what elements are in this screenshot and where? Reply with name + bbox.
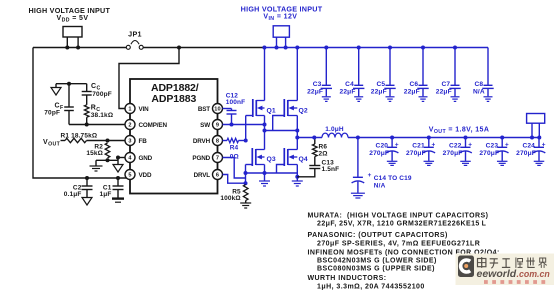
svg-text:22μF: 22μF xyxy=(340,88,356,95)
svg-text:C22: C22 xyxy=(449,143,462,150)
net label VOUT (feedback) xyxy=(43,139,61,147)
svg-text:270μF: 270μF xyxy=(516,150,536,157)
svg-text:VIN: VIN xyxy=(139,106,150,113)
ground (hatched, R2) xyxy=(90,166,103,171)
pin 6 DRVL xyxy=(194,170,223,180)
svg-text:COMP/EN: COMP/EN xyxy=(139,122,168,129)
wire Q3 gate vertical xyxy=(246,165,253,184)
pin 10 BST xyxy=(198,104,223,114)
svg-text:C3: C3 xyxy=(313,81,322,88)
svg-text:270μF: 270μF xyxy=(369,150,389,157)
wire pin 4 to AGND xyxy=(118,158,125,165)
svg-text:N/A: N/A xyxy=(374,183,386,190)
svg-text:9: 9 xyxy=(216,123,219,129)
svg-text:MURATA: (HIGH VOLTAGE INPUT C: MURATA: (HIGH VOLTAGE INPUT CAPACITORS) xyxy=(308,212,489,219)
svg-text:Q4: Q4 xyxy=(299,156,308,163)
capacitor CC 700pF xyxy=(82,83,112,98)
ground (Q3 source) xyxy=(259,181,270,186)
svg-text:270μF: 270μF xyxy=(443,150,463,157)
wire left VDD rail to pin 5 xyxy=(33,48,127,179)
svg-text:C20: C20 xyxy=(376,143,389,150)
capacitor C4 22uF xyxy=(340,48,365,102)
svg-text:1.0μH: 1.0μH xyxy=(325,126,344,133)
svg-text:C14 TO C19: C14 TO C19 xyxy=(374,175,412,182)
svg-text:+: + xyxy=(505,141,509,148)
pin 3 FB xyxy=(125,136,147,146)
svg-text:700pF: 700pF xyxy=(92,91,112,98)
svg-text:BST: BST xyxy=(198,106,210,113)
svg-text:8: 8 xyxy=(216,139,219,145)
svg-text:5: 5 xyxy=(128,173,131,179)
wire DRVL pin 6 feed xyxy=(223,175,246,184)
connector J-VOUT (output header) xyxy=(527,114,545,138)
ground (Q4 source) xyxy=(292,181,303,186)
ground (C1) xyxy=(112,199,124,203)
svg-text:1μH, 3.3mΩ, 20A 7443552100: 1μH, 3.3mΩ, 20A 7443552100 xyxy=(317,283,425,290)
svg-text:1.5nF: 1.5nF xyxy=(322,166,340,173)
capacitor C22 270uF xyxy=(443,138,473,166)
capacitor C23 270uF xyxy=(479,138,509,166)
svg-text:22μF, 25V, X7R, 1210 GRM32ER71: 22μF, 25V, X7R, 1210 GRM32ER71E226KE15 L xyxy=(317,221,487,228)
junction dot Q3 source xyxy=(263,171,267,175)
wire JP1 to VIN junction xyxy=(143,47,264,49)
wire Q3 source to ground xyxy=(264,165,266,181)
svg-text:Q3: Q3 xyxy=(267,156,276,163)
wire VDD drop to pin 1 VIN xyxy=(119,48,179,109)
resistor R6 2ohm (snubber) xyxy=(313,138,328,166)
svg-text:C8: C8 xyxy=(474,81,483,88)
transistor Q3 (lower MOSFET) xyxy=(252,148,276,166)
wire 12V blue rail xyxy=(264,47,488,49)
svg-text:15kΩ: 15kΩ xyxy=(86,150,103,157)
wire Q1 drain to 12V rail xyxy=(264,48,266,101)
resistor R2 15k xyxy=(86,143,109,158)
junction dot R6 top xyxy=(312,136,316,140)
svg-text:+: + xyxy=(542,141,546,148)
capacitor C6 22uF xyxy=(404,48,429,102)
pin 4 GND xyxy=(125,153,153,163)
svg-text:2: 2 xyxy=(128,123,131,129)
svg-text:+: + xyxy=(468,141,472,148)
capacitor C8 N/A xyxy=(473,48,494,102)
svg-text:.com.cn: .com.cn xyxy=(517,269,550,279)
wire SW cross tie xyxy=(265,130,298,132)
capacitor C2 0.1uF xyxy=(64,178,93,198)
svg-text:Q2: Q2 xyxy=(299,107,308,114)
ground triangle (AGND pin 4) xyxy=(113,165,123,173)
capacitor C13 1.5nF (snubber) xyxy=(297,160,339,177)
svg-text:DRVH: DRVH xyxy=(193,138,211,145)
svg-text:C4: C4 xyxy=(345,81,354,88)
junction dots on VDD bottom rail xyxy=(85,176,120,180)
ground (R5) xyxy=(240,203,251,208)
svg-text:270μF SP-SERIES, 4V, 7mΩ EEFUE: 270μF SP-SERIES, 4V, 7mΩ EEFUE0G271LR xyxy=(317,240,480,247)
transistor Q2 (upper MOSFET, NC) xyxy=(284,99,308,117)
svg-text:BSC042N03MS G (LOWER SIDE): BSC042N03MS G (LOWER SIDE) xyxy=(317,258,437,265)
junction dots Q2 source node xyxy=(295,129,299,140)
svg-text:HIGH VOLTAGE INPUT: HIGH VOLTAGE INPUT xyxy=(28,6,110,15)
capacitor C21 270uF xyxy=(406,138,436,166)
wire Q2 gate tie to SW xyxy=(273,116,285,131)
svg-text:Q1: Q1 xyxy=(267,107,276,114)
capacitor C20 270uF xyxy=(369,138,399,166)
node triangle (comp net top) xyxy=(51,84,61,95)
junction dots SW node xyxy=(230,123,267,127)
junction dot comp bottom xyxy=(85,123,89,127)
junction dot R4/Q1 gate xyxy=(244,139,248,143)
capacitor C12 100nF xyxy=(223,92,246,124)
junction dot R1/R2 node xyxy=(106,139,110,143)
svg-text:WURTH INDUCTORS:: WURTH INDUCTORS: xyxy=(308,275,387,282)
capacitor C5 22uF xyxy=(371,48,396,102)
svg-text:PANASONIC: (OUTPUT CAPACITORS): PANASONIC: (OUTPUT CAPACITORS) xyxy=(308,232,448,239)
svg-text:0.1μF: 0.1μF xyxy=(64,191,82,198)
svg-text:2Ω: 2Ω xyxy=(319,150,328,157)
resistor R1 18.75k xyxy=(61,133,126,143)
svg-text:7: 7 xyxy=(216,156,219,162)
capacitor C24 270uF xyxy=(516,138,546,166)
junction dots on 5V rail xyxy=(65,46,80,50)
svg-text:DRVL: DRVL xyxy=(194,172,211,179)
svg-text:22μF: 22μF xyxy=(371,88,387,95)
junction dot pin4 node xyxy=(116,156,120,160)
junction dot CF top xyxy=(67,82,71,86)
svg-text:JP1: JP1 xyxy=(128,30,142,39)
capacitor C3 22uF xyxy=(307,48,332,102)
svg-text:3: 3 xyxy=(128,139,131,145)
transistor Q1 (upper MOSFET) xyxy=(253,99,276,117)
pin 9 SW xyxy=(200,120,222,130)
inductor L1 1.0uH xyxy=(297,126,348,138)
svg-text:FB: FB xyxy=(139,138,148,145)
junction dots VOUT rail xyxy=(356,136,541,140)
svg-text:38.1kΩ: 38.1kΩ xyxy=(91,112,113,119)
svg-text:N/A: N/A xyxy=(473,88,485,95)
svg-text:VDD: VDD xyxy=(139,172,152,179)
svg-text:ADP1883: ADP1883 xyxy=(151,93,196,105)
pin 1 VIN xyxy=(125,104,149,114)
wire Q4 source to ground xyxy=(296,165,298,181)
svg-text:SW: SW xyxy=(200,122,210,129)
svg-text:R4: R4 xyxy=(230,145,239,152)
wire PGND pin 7 feed xyxy=(223,158,246,179)
connector J-VDD (5V input header) xyxy=(63,27,82,48)
jumper JP1 xyxy=(126,30,143,50)
connector J-VIN (12V input header) xyxy=(273,26,289,48)
wire VOUT rail xyxy=(348,137,541,139)
svg-text:PGND: PGND xyxy=(192,155,210,162)
svg-text:1μF: 1μF xyxy=(99,191,111,198)
pin 2 COMP/EN xyxy=(125,120,167,130)
junction dots 12V rail xyxy=(262,46,457,50)
wire Q4 gate tie to PGND xyxy=(277,165,285,174)
svg-text:+: + xyxy=(395,141,399,148)
resistor RC 38.1k xyxy=(84,95,113,125)
svg-text:HIGH VOLTAGE INPUT: HIGH VOLTAGE INPUT xyxy=(241,4,323,13)
svg-text:C7: C7 xyxy=(441,81,450,88)
pin 7 PGND xyxy=(192,153,222,163)
resistor R5 100k (DRVL pulldown) xyxy=(220,185,248,203)
svg-text:22μF: 22μF xyxy=(307,88,323,95)
junction dots DRVL node xyxy=(244,171,248,185)
wire 5V top rail xyxy=(33,47,126,49)
svg-text:270μF: 270μF xyxy=(406,150,426,157)
svg-text:100kΩ: 100kΩ xyxy=(220,195,240,202)
net label: HIGH VOLTAGE INPUT VDD = 5V xyxy=(28,6,110,23)
junction dot node VDD-JP1 xyxy=(177,46,181,50)
svg-text:C6: C6 xyxy=(409,81,418,88)
junction dot R2 bottom xyxy=(106,158,110,162)
svg-text:270μF: 270μF xyxy=(479,150,499,157)
wire Q2 source down to Q4 drain xyxy=(296,116,298,150)
svg-text:1: 1 xyxy=(128,107,131,113)
svg-text:eeworld: eeworld xyxy=(477,268,517,280)
svg-text:22μF: 22μF xyxy=(404,88,420,95)
wire Q2 drain to 12V rail xyxy=(296,48,298,101)
pin 5 VDD xyxy=(125,170,152,180)
svg-text:22μF: 22μF xyxy=(436,88,452,95)
junction dot C13 return xyxy=(295,175,299,179)
svg-text:C5: C5 xyxy=(376,81,385,88)
svg-text:BSC080N03MS G (UPPER SIDE): BSC080N03MS G (UPPER SIDE) xyxy=(317,266,435,273)
capacitor C1 1uF xyxy=(99,178,123,198)
wire Q1 source down to Q3 drain xyxy=(264,116,266,150)
svg-text:C24: C24 xyxy=(522,143,535,150)
wire PGND rail xyxy=(246,172,298,174)
junction dot SW mid xyxy=(263,129,267,133)
wire Q1 gate feed xyxy=(246,116,253,141)
note text block (BOM) xyxy=(308,212,500,290)
svg-text:6: 6 xyxy=(216,173,219,179)
svg-text:10: 10 xyxy=(214,107,221,113)
svg-text:C21: C21 xyxy=(412,143,425,150)
svg-text:70pF: 70pF xyxy=(44,110,60,117)
capacitor CF 70pF xyxy=(44,84,74,125)
wire SW pin 9 to Q1 source xyxy=(223,124,265,126)
net label: HIGH VOLTAGE INPUT VIN = 12V xyxy=(241,4,323,21)
capacitor C14 TO C19 N/A xyxy=(351,138,412,199)
svg-text:100nF: 100nF xyxy=(226,99,246,106)
transistor Q4 (lower MOSFET, NC) xyxy=(284,148,308,166)
svg-text:+: + xyxy=(432,141,436,148)
svg-text:+: + xyxy=(368,172,372,179)
capacitor C7 22uF xyxy=(436,48,461,102)
pin 8 DRVH xyxy=(193,136,223,146)
svg-text:GND: GND xyxy=(139,155,153,162)
ground triangle (C2) xyxy=(82,198,92,206)
watermark logo eeworld xyxy=(456,254,554,286)
svg-text:C23: C23 xyxy=(486,143,499,150)
wire comp to pin 2 xyxy=(69,124,125,126)
wire R2 bottom to grounds xyxy=(96,160,118,165)
resistor R4 0ohm (gate) xyxy=(223,138,246,160)
op-amp U1 ADP1882/ADP1883 controller box xyxy=(130,79,218,194)
net label VOUT = 1.8V 15A xyxy=(429,126,490,134)
wire comp top xyxy=(56,83,87,85)
